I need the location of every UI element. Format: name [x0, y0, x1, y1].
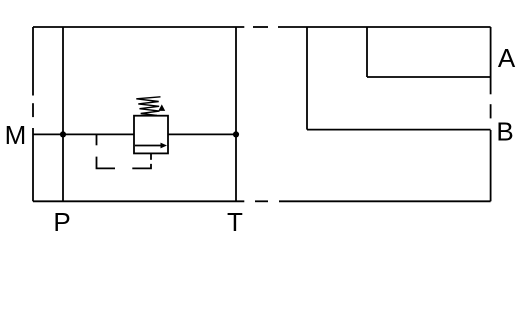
- svg-text:A: A: [498, 43, 516, 73]
- svg-text:P: P: [53, 207, 70, 237]
- svg-text:M: M: [5, 120, 27, 150]
- svg-text:T: T: [227, 207, 243, 237]
- svg-text:B: B: [496, 117, 513, 147]
